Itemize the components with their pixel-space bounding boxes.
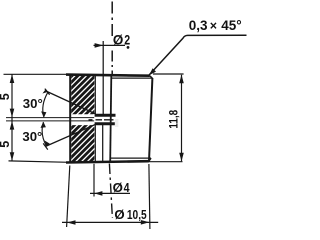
dimension O2 [94,43,130,49]
section hatch lower block [62,80,108,207]
section hatch upper block [62,34,108,161]
svg-text:5: 5 [0,141,12,148]
dimension 11,8 [148,74,184,162]
svg-text:×: × [210,19,217,33]
bore boundary line [94,76,96,162]
tick lower [43,143,48,149]
part outline [66,74,152,163]
leader 0,3x45 [149,35,247,75]
vertical centerline [109,2,112,219]
angle arc upper [41,89,48,118]
groove slot edges [95,115,116,123]
horizontal centerline dashes in slot [89,119,114,121]
svg-text:0,3: 0,3 [189,18,208,33]
svg-text:Ø: Ø [113,33,123,48]
angle arc lower [41,122,50,147]
hole edge line [102,41,105,161]
svg-text:10,5: 10,5 [127,207,147,222]
dimension O4 [90,164,130,197]
svg-text:5: 5 [0,93,12,100]
svg-text:Ø: Ø [114,207,124,222]
svg-text:Ø: Ø [113,180,123,195]
svg-text:45°: 45° [221,18,241,33]
cone line upper 30 [47,92,95,114]
chamfer lines on right half [111,76,152,162]
slot end smudge [115,119,119,127]
svg-text:11,8: 11,8 [168,109,180,128]
dimension 5 upper and lower [4,74,70,162]
svg-text:30°: 30° [23,96,43,111]
svg-text:30°: 30° [22,129,42,144]
tick upper [45,89,50,95]
svg-text:2: 2 [124,33,130,48]
cone line lower 30 [46,124,96,146]
horizontal centerline pair (left) [6,118,94,121]
dimension O10,5 [62,164,158,229]
svg-text:4: 4 [124,180,130,195]
